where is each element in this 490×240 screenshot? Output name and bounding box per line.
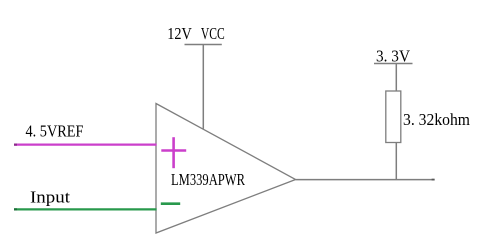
wire op-amp output node	[296, 179, 435, 181]
wire end cap 4.5VREF	[14, 144, 17, 146]
op-amp U1 inverting input marker -	[161, 202, 180, 205]
power rail bar 12V VCC	[185, 44, 222, 46]
wire 4.5VREF to + input (magenta)	[14, 144, 157, 146]
power rail bar 3.3V	[374, 63, 413, 65]
wire 3.3V rail to resistor R top	[395, 64, 397, 92]
wire VCC rail to op-amp top	[202, 45, 204, 129]
svg-text:LM339APWR: LM339APWR	[171, 170, 245, 189]
svg-text:VCC: VCC	[201, 24, 225, 43]
svg-text:12V: 12V	[167, 24, 192, 43]
wire end cap Input	[14, 208, 17, 210]
wire end cap output	[432, 179, 435, 181]
wire resistor R bottom to output node	[395, 143, 397, 181]
op-amp U1 non-inverting input marker +	[161, 137, 186, 168]
svg-text:Input: Input	[30, 188, 70, 207]
svg-text:4. 5VREF: 4. 5VREF	[26, 122, 84, 141]
wire Input to - input (green)	[14, 208, 157, 210]
op-amp U1 body (comparator triangle)	[156, 104, 296, 234]
svg-text:3. 32kohm: 3. 32kohm	[403, 110, 470, 129]
resistor R body	[386, 91, 401, 143]
